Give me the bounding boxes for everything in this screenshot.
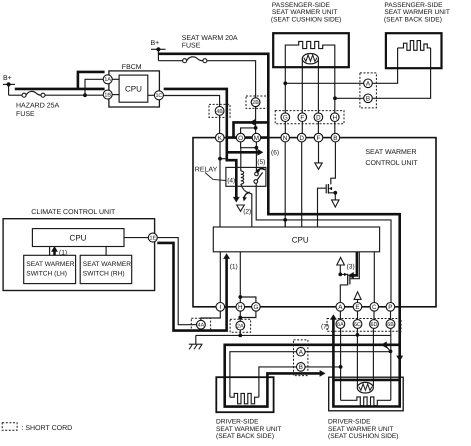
wire 6C column to driver thermostat left	[356, 328, 358, 386]
svg-text:6B: 6B	[387, 322, 394, 328]
thick wire 1C feed down to relay	[164, 89, 237, 197]
terminal B row1	[331, 133, 340, 142]
svg-text:PASSENGER-SIDE: PASSENGER-SIDE	[272, 2, 331, 9]
dashed connector box 6A 5C 6D 6B	[327, 319, 401, 332]
fuse F2 lead-in wire	[158, 60, 182, 62]
connector 6D	[370, 320, 379, 329]
wire connector 4A to climate 1E	[157, 238, 197, 325]
svg-text:D: D	[316, 115, 321, 122]
wire H column to connector B passenger	[335, 97, 364, 99]
wire M terminal down to relay switch	[255, 142, 257, 172]
wire terminal E to connector 6C	[357, 311, 359, 319]
thick wire branch over 2B with junction	[234, 122, 269, 137]
dashed connector box 4A	[191, 318, 210, 331]
wire B+ down to seat warm fuse	[157, 49, 159, 60]
svg-text:FUSE: FUSE	[16, 111, 35, 118]
dashed connector box G F D H	[275, 111, 344, 124]
wire diagonal tap thick feed to 6B column	[385, 345, 390, 351]
thick wire current path (1) from 1E to control CPU	[157, 243, 226, 331]
svg-text:DRIVER-SIDE: DRIVER-SIDE	[216, 419, 259, 426]
junction dot B+ seat warm	[156, 47, 160, 51]
chassis ground symbol	[189, 344, 203, 349]
svg-text:1A: 1A	[104, 77, 111, 83]
svg-text:SEAT WARMER UNIT: SEAT WARMER UNIT	[328, 426, 393, 433]
fuse F2 terminal circles	[183, 59, 187, 63]
svg-text:B+: B+	[151, 40, 160, 47]
relay switch blade (5)	[257, 172, 263, 180]
connector G upper	[281, 113, 290, 122]
ground triangle below F column	[315, 163, 322, 169]
climate CPU box	[32, 229, 124, 247]
terminal 1E	[148, 233, 157, 242]
wire 1C to connector 4B and terminal K	[163, 96, 219, 134]
FBCM U1 box	[109, 71, 159, 107]
connector B driver	[297, 363, 306, 372]
svg-text:B: B	[299, 364, 303, 371]
MOSFET Q2 gate lead to CPU	[350, 252, 359, 279]
fuse F2 element arc	[187, 57, 203, 61]
svg-text:SEAT WARM 20A: SEAT WARM 20A	[182, 35, 238, 42]
driver back heating element	[230, 393, 259, 403]
driver cushion heating element	[341, 397, 391, 406]
wire connector A to passenger back element left	[372, 48, 397, 83]
svg-text:CLIMATE CONTROL UNIT: CLIMATE CONTROL UNIT	[31, 209, 116, 216]
wire driver back element right to connector B	[259, 367, 297, 397]
FBCM internal wire CPU to 1C	[148, 94, 155, 96]
svg-text:(SEAT BACK SIDE): (SEAT BACK SIDE)	[384, 16, 442, 23]
wire G column to connector A passenger	[285, 82, 363, 84]
dashed box legend short cord	[2, 423, 17, 431]
terminal M	[252, 133, 261, 142]
svg-text:I: I	[219, 304, 221, 311]
svg-text:1C: 1C	[155, 93, 162, 99]
thick arrow on driver feed line pointing left	[381, 341, 387, 348]
svg-text:H: H	[238, 304, 243, 311]
junction dot fuse branch	[83, 93, 87, 97]
svg-text:(2): (2)	[243, 208, 251, 215]
wire jog O bottom to M column	[241, 142, 257, 148]
svg-text:G: G	[253, 304, 258, 311]
svg-text:SWITCH (RH): SWITCH (RH)	[83, 271, 125, 278]
terminal O	[236, 133, 245, 142]
wire relay switch output to terminal P	[256, 183, 391, 302]
dashed connector box 4B	[209, 104, 230, 117]
thick wire driver feed branch to back unit	[225, 345, 400, 407]
seat warmer switch LH box	[24, 255, 76, 283]
relay coil (4)	[241, 171, 244, 184]
wire climate CPU to 1E	[124, 237, 149, 239]
svg-text:PASSENGER-SIDE: PASSENGER-SIDE	[384, 2, 443, 9]
junction dot K tap	[218, 157, 222, 161]
passenger cushion unit box	[273, 33, 349, 67]
ground drop wire	[195, 335, 197, 344]
connector 4B	[215, 107, 224, 116]
svg-text:(SEAT CUSHION SIDE): (SEAT CUSHION SIDE)	[271, 16, 341, 23]
thermostat TH1 zigzag	[304, 55, 317, 61]
relay switch contact lower	[254, 180, 258, 184]
dashed connector box 2A	[230, 319, 251, 332]
svg-text:2B: 2B	[252, 100, 259, 106]
junction dot H-G lower tie	[238, 316, 242, 320]
seat warmer control unit box	[193, 138, 436, 307]
svg-text:SEAT WARMER UNIT: SEAT WARMER UNIT	[216, 426, 281, 433]
thermostat TH1 passenger ellipse	[302, 54, 318, 64]
fuse F1 element arc	[26, 91, 41, 95]
FBCM CPU box	[119, 75, 148, 102]
svg-text:CPU: CPU	[70, 234, 87, 243]
node B+ hazard feed terminal tick	[3, 83, 15, 85]
seat warmer switch RH box	[80, 255, 132, 283]
wire terminal P to connector 6B	[390, 311, 392, 319]
dashed connector box 2B	[246, 96, 267, 108]
svg-text:H: H	[333, 115, 338, 122]
connector 6A	[336, 320, 345, 329]
svg-text:2A: 2A	[237, 324, 244, 330]
wire driver connector A to 6B column	[305, 351, 390, 353]
triangle (3) above MOSFET Q2	[337, 257, 345, 265]
junction dot driver B tie on 6A column	[339, 365, 343, 369]
thermostat TH1 left wire / F column	[301, 59, 303, 134]
thick arrow (7) pointing up	[330, 314, 337, 320]
wire tie H-G lower	[240, 311, 256, 317]
connector A passenger	[364, 79, 373, 88]
wire branch up to FBCM 1A	[85, 79, 103, 95]
svg-text:F: F	[317, 135, 321, 142]
FBCM internal wire 1A to CPU	[112, 78, 119, 80]
svg-text:HAZARD 25A: HAZARD 25A	[16, 102, 60, 109]
thermostat TH1 right wire / D column	[317, 59, 319, 134]
svg-text:(SEAT CUSHION SIDE): (SEAT CUSHION SIDE)	[328, 433, 398, 440]
relay switch hook arrow	[258, 169, 265, 171]
thick wire seat warm feed main run	[158, 54, 399, 407]
MOSFET Q1 source to ground triangle	[328, 193, 335, 200]
junction dot driver A tie on 6B column	[389, 350, 393, 354]
terminal F row1	[314, 133, 323, 142]
svg-text:(1): (1)	[59, 250, 67, 257]
wire 6B column to driver cushion element right	[390, 328, 392, 400]
MOSFET Q2 body arrow	[344, 273, 347, 276]
wire terminal H to connector 2A	[239, 318, 241, 322]
fuse F1 terminal circles	[22, 93, 26, 97]
wire 6A column to driver cushion element left	[340, 328, 342, 400]
fuse F1 HAZARD 25A lead-in wire	[9, 94, 22, 96]
svg-text:: SHORT CORD: : SHORT CORD	[22, 425, 73, 432]
MOSFET Q1 channel bar	[327, 184, 329, 194]
svg-text:SEAT WARMER UNIT: SEAT WARMER UNIT	[384, 9, 449, 16]
wire passenger back element right to connector B	[372, 48, 430, 98]
MOSFET Q1 source junction dot	[333, 191, 337, 195]
svg-text:E: E	[355, 304, 359, 311]
wire terminal C to connector 6D	[373, 311, 375, 319]
svg-text:6A: 6A	[337, 322, 344, 328]
svg-text:CONTROL UNIT: CONTROL UNIT	[365, 160, 418, 167]
connector 6C	[353, 320, 362, 329]
thick arrow back loop stub pointing right	[320, 370, 326, 377]
MOSFET Q1 gate lead to CPU	[318, 188, 327, 227]
MOSFET Q1 gate bar	[325, 184, 327, 193]
thick wire current path to MOSFET Q2 gate	[354, 252, 357, 275]
junction dot G column to connector A	[283, 81, 287, 85]
wire tie H-G upper	[240, 297, 256, 303]
wire climate CPU to LH switch	[49, 247, 51, 256]
junction dot O jog lower on M column	[255, 146, 259, 150]
thick wire driver cushion loop top	[333, 379, 399, 382]
terminal 1C	[154, 91, 163, 100]
climate control unit box	[3, 219, 155, 291]
terminal H row2	[236, 303, 245, 312]
thick arrow down into driver cushion unit	[396, 356, 403, 362]
MOSFET Q1 body arrow	[329, 187, 332, 190]
terminal A row2	[336, 303, 345, 312]
svg-text:FBCM: FBCM	[122, 64, 142, 71]
svg-text:(SEAT BACK SIDE): (SEAT BACK SIDE)	[216, 433, 274, 440]
wire K branch to thick feed tap	[220, 158, 227, 160]
connector F upper	[298, 113, 307, 122]
terminal G row2	[252, 303, 261, 312]
svg-text:(7): (7)	[321, 324, 329, 331]
svg-text:RELAY: RELAY	[195, 167, 218, 174]
svg-text:(4): (4)	[227, 177, 235, 184]
wire climate CPU to RH switch	[105, 247, 107, 256]
wire B column to MOSFET Q1 drain	[331, 142, 336, 185]
svg-text:B+: B+	[3, 75, 12, 82]
thick arrow (6) pointing right	[257, 149, 263, 156]
svg-text:1E: 1E	[150, 236, 157, 242]
terminal P	[386, 303, 395, 312]
ground triangle below MOSFET Q1	[332, 200, 339, 207]
driver cushion unit box	[329, 377, 404, 411]
wire F column to ground triangle	[318, 142, 320, 163]
wire jog O top to M column	[241, 128, 256, 133]
wire connector 2A to ground line	[239, 330, 241, 336]
FBCM internal wire 1B to CPU	[112, 94, 119, 96]
thick arrow into Q2 gate pointing left	[348, 272, 354, 279]
wire C column to CPU	[373, 252, 375, 303]
terminal K	[216, 133, 225, 142]
wire CPU to terminal I	[219, 252, 221, 303]
hollow arrow (2) below relay	[237, 205, 245, 211]
wire relay coil output to CPU	[241, 184, 252, 227]
wire K column down to CPU	[219, 142, 221, 227]
connector H upper	[331, 113, 340, 122]
connector A driver	[297, 347, 306, 356]
terminal D row1	[297, 133, 306, 142]
svg-text:F: F	[300, 115, 304, 122]
wire E column to triangle	[357, 300, 359, 303]
wire driver connector A to back element left	[230, 352, 297, 398]
svg-text:CPU: CPU	[125, 85, 142, 94]
connector D upper	[314, 113, 323, 122]
wire fuse F2 to connector 2B and terminal M	[207, 61, 256, 134]
junction dot B+ hazard	[7, 82, 11, 86]
wire relay coil feed from O jog	[240, 148, 242, 171]
junction dot H column to connector B	[333, 96, 337, 100]
svg-text:(5): (5)	[257, 159, 265, 166]
control unit CPU box	[213, 227, 379, 252]
svg-text:6C: 6C	[354, 322, 361, 328]
MOSFET Q2 source to triangle (3)	[340, 265, 347, 274]
svg-text:M: M	[254, 135, 259, 142]
svg-text:CPU: CPU	[292, 235, 309, 244]
driver back unit box	[216, 377, 273, 412]
terminal E	[353, 303, 362, 312]
svg-text:O: O	[238, 135, 243, 142]
relay RY1 box	[226, 167, 266, 186]
svg-text:D: D	[299, 135, 304, 142]
thick arrow (1) into climate CPU	[53, 251, 56, 255]
svg-text:SEAT WARMER UNIT: SEAT WARMER UNIT	[272, 9, 337, 16]
junction dot H-G upper tie	[238, 295, 242, 299]
svg-text:B: B	[333, 135, 337, 142]
connector 6B	[386, 320, 395, 329]
connector 2A	[236, 321, 245, 330]
thermostat TH2 zigzag	[359, 384, 372, 390]
wire terminal I to connector 4A	[201, 311, 220, 320]
wire branch switch line down to CPU	[284, 220, 286, 227]
wire fuse to node at x85	[45, 94, 103, 96]
svg-text:B: B	[366, 96, 370, 103]
svg-text:FUSE: FUSE	[182, 43, 201, 50]
wire N column terminal to CPU	[284, 142, 286, 227]
svg-text:C: C	[372, 304, 377, 311]
passenger back unit box	[386, 33, 442, 68]
MOSFET Q2 drain to terminal A	[340, 285, 347, 303]
junction dot O jog upper on M column	[254, 126, 258, 130]
svg-text:4B: 4B	[216, 109, 223, 115]
connector 4A	[197, 320, 206, 329]
svg-text:6D: 6D	[371, 322, 378, 328]
thick wire along terminal row K-M	[227, 136, 268, 139]
thick arrow at 2B junction pointing left	[250, 119, 256, 126]
wire CPU to terminal H	[239, 252, 241, 303]
svg-text:(3): (3)	[347, 264, 355, 271]
relay leader line	[205, 173, 226, 181]
junction dot 6C on ground bus	[356, 333, 360, 337]
wire 6D column to driver thermostat right	[372, 328, 374, 386]
relay switch contact upper	[255, 172, 259, 176]
svg-text:SEAT WARMER: SEAT WARMER	[83, 261, 131, 268]
passenger back heating element	[398, 41, 431, 51]
terminal C	[370, 303, 379, 312]
junction dot N column on switch line	[283, 218, 287, 222]
svg-text:P: P	[388, 304, 392, 311]
svg-text:1B: 1B	[104, 93, 111, 99]
svg-text:SWITCH (LH): SWITCH (LH)	[26, 271, 67, 278]
svg-text:SEAT WARMER: SEAT WARMER	[365, 149, 416, 156]
MOSFET Q2 source junction dot	[338, 273, 342, 277]
connector 2B	[251, 98, 260, 107]
svg-text:G: G	[283, 115, 288, 122]
dashed connector box A B passenger	[360, 73, 377, 108]
svg-text:SEAT WARMER: SEAT WARMER	[26, 261, 74, 268]
wire B+ down to hazard fuse	[8, 84, 10, 95]
svg-text:(6): (6)	[271, 150, 279, 157]
thick wire B+ hazard to FBCM lower	[15, 88, 105, 91]
wire D column terminal to CPU	[301, 142, 303, 227]
terminal N	[281, 133, 290, 142]
triangle above terminal E	[354, 292, 361, 300]
relay hook arrow below coil	[244, 192, 250, 198]
terminal I	[216, 303, 225, 312]
thick wire B+ hazard branch to FBCM upper	[78, 72, 105, 89]
passenger cushion element left wire / G column	[285, 41, 335, 133]
thick wire branch (6) toward B+ feed	[227, 151, 258, 154]
junction dot 2A on ground bus	[238, 334, 242, 338]
terminal 1A	[103, 75, 112, 84]
svg-text:N: N	[283, 135, 288, 142]
svg-text:(1): (1)	[230, 264, 238, 271]
thermostat TH2 driver ellipse	[357, 382, 373, 393]
dashed connector box A B driver	[294, 340, 308, 376]
svg-text:4A: 4A	[198, 323, 205, 329]
svg-text:DRIVER-SIDE: DRIVER-SIDE	[328, 419, 371, 426]
MOSFET Q2 channel bar	[347, 274, 349, 286]
terminal 1B	[103, 90, 112, 99]
thick arrow relay coil current	[233, 197, 240, 203]
wire terminal A to connector 6A	[339, 311, 341, 319]
MOSFET Q2 gate bar	[349, 275, 351, 285]
wire driver connector B to 6A column	[305, 366, 341, 368]
connector B passenger	[364, 94, 373, 103]
thick arrow (1) into control CPU	[223, 253, 230, 259]
node B+ seat warm feed terminal tick	[151, 48, 166, 50]
ground bus wire	[196, 334, 391, 336]
